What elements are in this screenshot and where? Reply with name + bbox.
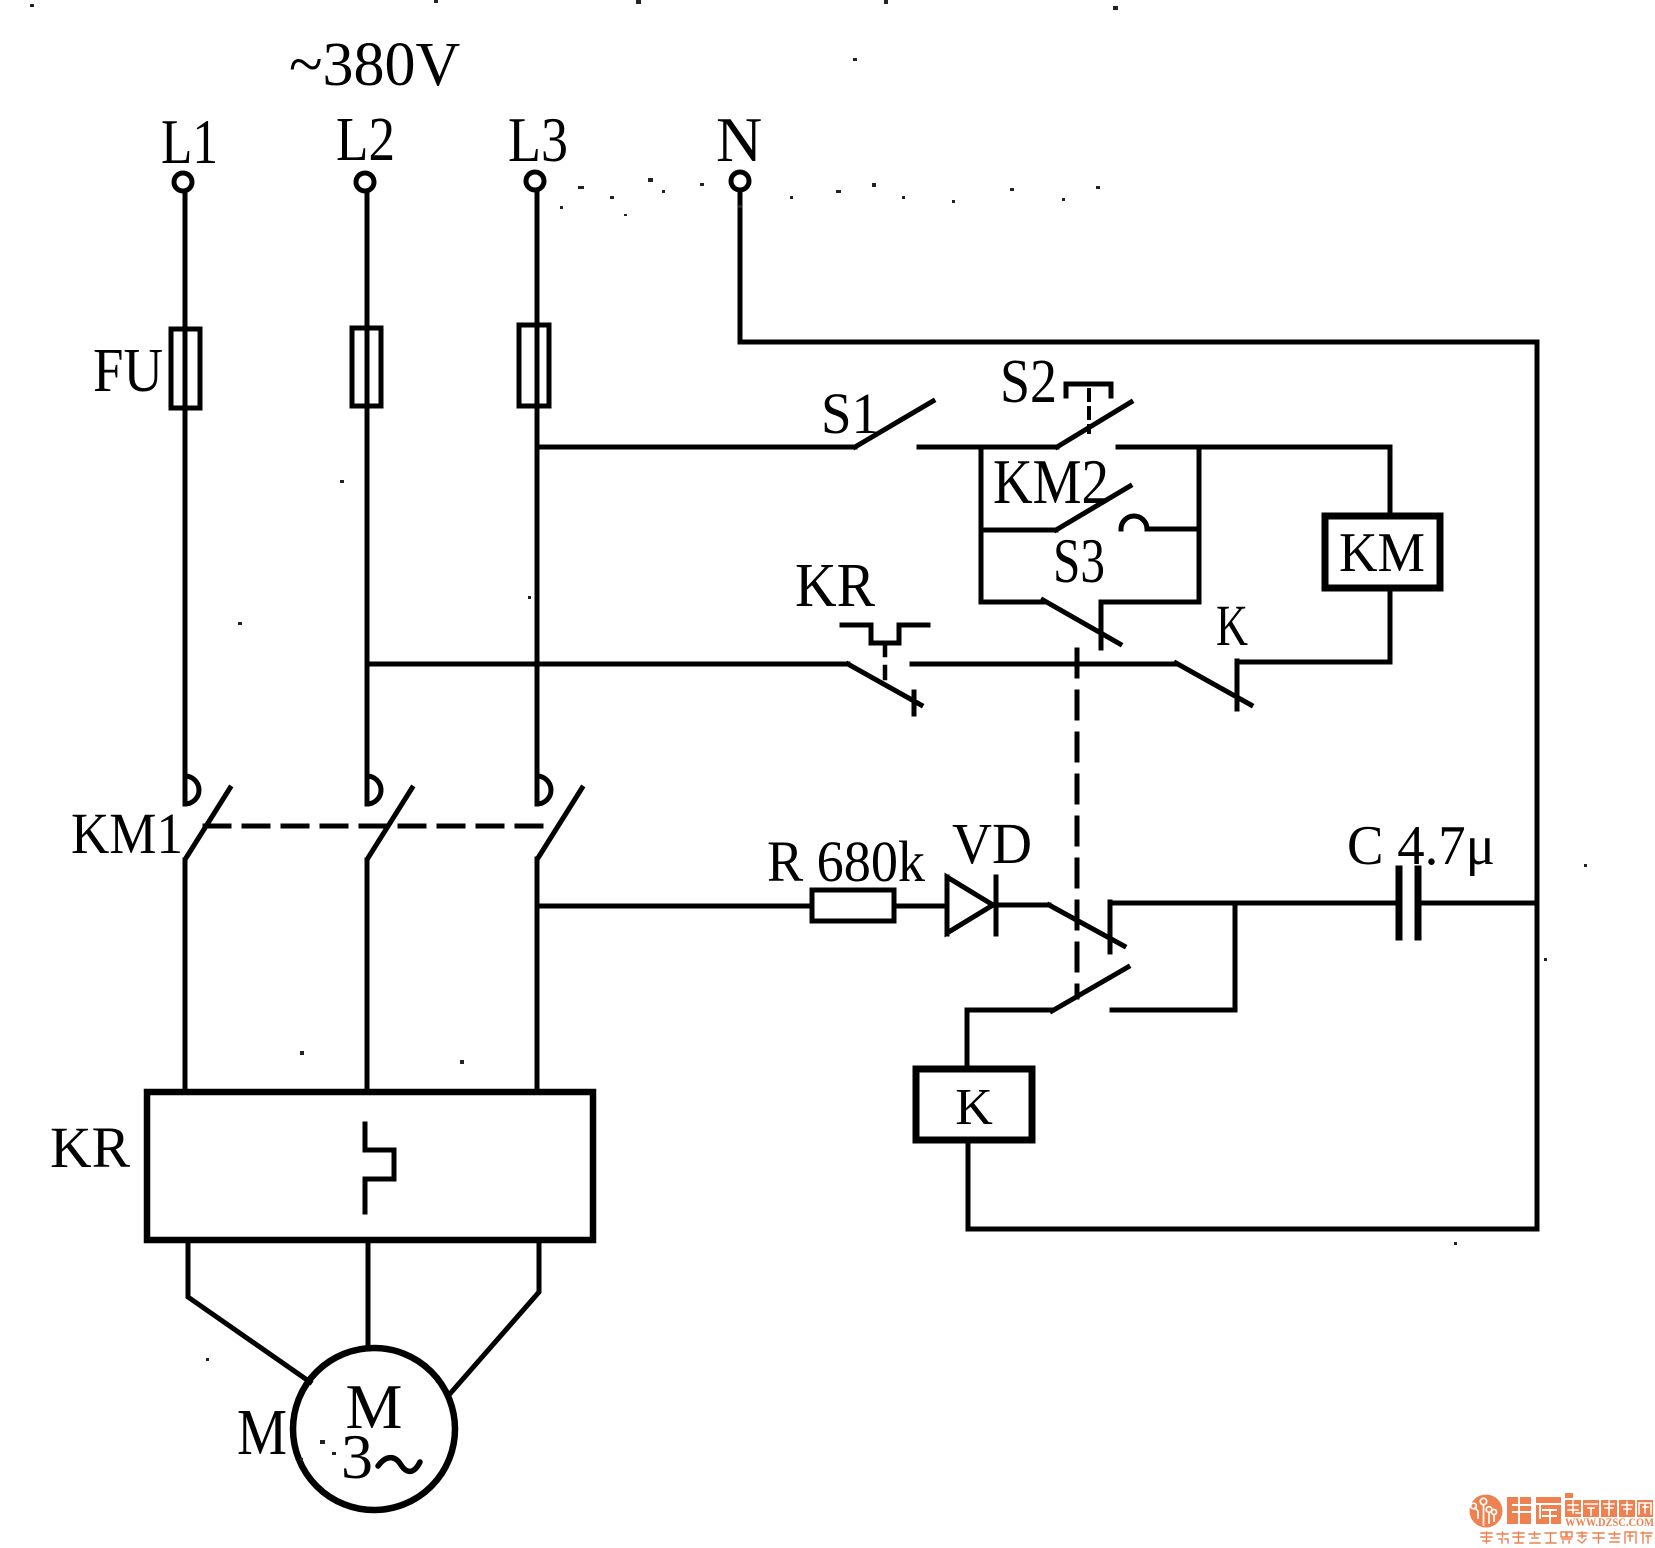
wire L3 upper (535, 190, 540, 772)
switch S2 blade (1057, 402, 1131, 447)
watermark logo (1470, 1495, 1503, 1528)
fuse FU (L1) (171, 329, 200, 408)
fuse (L2) (352, 328, 381, 406)
changeover lower fixed loop (1112, 903, 1235, 1010)
wire L1 upper (183, 191, 188, 772)
thermal contact KR (NC) (842, 625, 928, 714)
wire KR box to motor (L3) (448, 1240, 539, 1396)
svg-text:KM1: KM1 (71, 801, 183, 866)
contactor KM1 pole 1 (L1) (185, 775, 230, 1092)
svg-text:R 680k: R 680k (767, 829, 925, 894)
node L3 (508, 104, 568, 190)
svg-text:K: K (1216, 593, 1248, 658)
svg-text:C 4.7μ: C 4.7μ (1347, 815, 1495, 877)
svg-text:L2: L2 (336, 106, 395, 174)
wire KR contact to K contact (912, 662, 1176, 667)
diode VD (947, 877, 996, 934)
KM2/S3 box left vertical (979, 447, 984, 602)
svg-text:KM: KM (1339, 522, 1425, 584)
wire L2 upper (365, 191, 370, 772)
svg-text:N: N (716, 104, 762, 175)
contactor KM1 pole 2 (L2) (367, 775, 412, 1092)
watermark slogan blocks (1481, 1532, 1652, 1543)
changeover contact K upper blade (1049, 905, 1124, 946)
svg-text:S1: S1 (821, 381, 879, 446)
coil KM (1237, 447, 1440, 662)
svg-text:KR: KR (795, 552, 876, 620)
wire N down and across to right rail, down right side, bottom to K coil (740, 192, 1537, 1229)
wire S2 to KM coil corner (1118, 445, 1390, 450)
node L1 (161, 106, 218, 191)
wire control line B from L2 to KR contact (367, 662, 848, 667)
svg-text:3: 3 (341, 1421, 373, 1492)
capacitor C 4.7u (1399, 869, 1537, 937)
changeover fixed stub (1108, 902, 1113, 952)
contactor KM1 pole 3 (L3) (537, 775, 582, 1092)
changeover lower blade (1052, 967, 1128, 1011)
S2 pushbutton actuator (1066, 384, 1111, 432)
switch S1 blade (855, 401, 933, 447)
svg-text:KM2: KM2 (993, 446, 1109, 517)
svg-text:~380V: ~380V (289, 31, 461, 99)
wire stub to capacitor (1110, 901, 1396, 906)
svg-text:S3: S3 (1053, 525, 1105, 596)
watermark text 电子市场网 (1565, 1500, 1653, 1517)
wire control line from L3 to S1 (537, 445, 855, 450)
svg-text:FU: FU (93, 337, 163, 405)
svg-text:KR: KR (50, 1115, 130, 1180)
watermark text blocks 维库 TM (1507, 1493, 1573, 1524)
wire KR box to motor (L2) (366, 1240, 371, 1349)
node N (716, 104, 762, 190)
fuse (L3) (519, 325, 549, 406)
node L2 (336, 106, 395, 191)
wire resistor to diode (894, 904, 947, 909)
svg-text:L3: L3 (508, 104, 568, 175)
wire diode to changeover (996, 903, 1049, 908)
thermal relay KR heater box (147, 1092, 593, 1240)
wire changeover to K coil (967, 1010, 1052, 1069)
linkage dashed S3 to changeover (1075, 650, 1080, 997)
svg-text:VD: VD (952, 811, 1032, 876)
contact K (NO, in KM coil circuit) (1176, 593, 1251, 709)
wire L3 to resistor (537, 904, 812, 909)
contact KM2 (981, 486, 1199, 530)
coil K (916, 1069, 1032, 1140)
wire S1 to S2 (919, 445, 1057, 450)
KM2/S3 box right vertical (1197, 447, 1202, 602)
svg-text:WWW.DZSC.COM: WWW.DZSC.COM (1565, 1517, 1654, 1529)
svg-text:K: K (955, 1079, 993, 1136)
resistor R 680k (812, 890, 894, 921)
svg-text:M: M (237, 1396, 287, 1469)
svg-text:L1: L1 (161, 106, 218, 177)
switch S3 (981, 600, 1199, 648)
motor M (293, 1348, 455, 1510)
KM1 linkage dashed (205, 824, 545, 829)
wire KR box to motor (L1) (188, 1240, 310, 1382)
svg-text:S2: S2 (1000, 348, 1057, 416)
